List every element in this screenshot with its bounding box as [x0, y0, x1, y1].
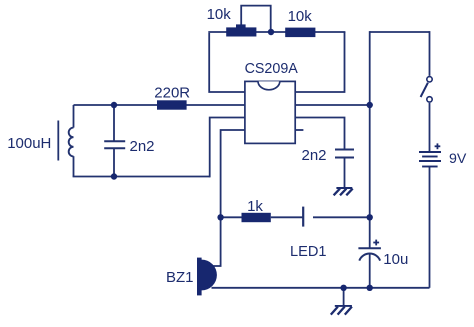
capacitor 2n2 (right) plates: [335, 150, 354, 158]
wire: 2n2 left bottom lead: [113, 148, 115, 176]
resistor 10k: [285, 28, 315, 37]
svg-text:10k: 10k: [207, 6, 232, 23]
inductor L1 coil: [69, 128, 74, 157]
inductor L1 core bar: [57, 121, 59, 161]
wire: V+ top link: [370, 31, 430, 33]
svg-text:CS209A: CS209A: [245, 61, 299, 77]
wire: pin 4 left elbow down to 1k row: [221, 130, 245, 217]
junction dot: rail ground: [340, 285, 346, 291]
svg-text:2n2: 2n2: [130, 138, 155, 155]
buzzer BZ1: [197, 258, 217, 296]
svg-text:BZ1: BZ1: [166, 269, 194, 286]
wire: switch bottom lead to battery: [429, 103, 431, 151]
wire: pin 2 right to V+ line: [295, 104, 370, 106]
junction dot: tank bottom: [111, 173, 117, 179]
ground G2 (bottom rail): [331, 306, 352, 315]
wire: battery negative lead: [429, 167, 431, 288]
capacitor 10u plates: [358, 248, 381, 260]
wire: 2n2 left top lead: [113, 105, 115, 141]
wire: top wire: [208, 31, 345, 33]
ground G1 (under right 2n2): [334, 188, 353, 195]
battery B1 9V: [419, 152, 441, 167]
switch S1: [421, 77, 433, 103]
svg-text:1k: 1k: [247, 198, 263, 215]
svg-text:100uH: 100uH: [7, 135, 51, 152]
wire: V+ vertical lower (below 10u): [369, 254, 371, 288]
junction dot: LED row on V+ line: [367, 214, 373, 220]
LED1 bar: [302, 207, 304, 227]
wire: tank bottom row: [74, 175, 210, 178]
wire: box right vertical + IC pin 1 right: [295, 32, 344, 92]
wire: wiper loop: [241, 6, 271, 32]
wire: ground stub bottom: [343, 288, 345, 305]
wire: box left vertical + IC pin 1 left: [209, 33, 245, 92]
svg-text:220R: 220R: [154, 84, 190, 101]
svg-text:LED1: LED1: [290, 244, 327, 260]
svg-text:2n2: 2n2: [302, 147, 327, 164]
svg-text:10k: 10k: [288, 8, 313, 25]
wire: pin 3 right elbow down to 2n2: [295, 118, 344, 150]
IC U1 CS209A body: [245, 81, 295, 143]
wire: inductor top lead: [73, 105, 75, 128]
junction dot: 1k row left: [217, 214, 223, 220]
svg-text:9V: 9V: [449, 151, 467, 167]
wire: bottom rail: [212, 287, 430, 289]
battery plus sign: [435, 143, 441, 149]
resistor 1k: [242, 213, 271, 222]
capacitor 2n2 (tank) plates: [104, 141, 125, 148]
wire: 1k to LED bar: [271, 216, 303, 218]
wire: buzzer top lead: [212, 216, 221, 266]
10u plus sign: [373, 240, 379, 246]
wire: pin 4 right stub (NC): [295, 129, 303, 131]
wire: inductor bottom lead: [73, 156, 75, 176]
wire: LED row right segment: [313, 216, 370, 218]
wire: tank top row (pin 2 left): [74, 104, 245, 106]
svg-text:10u: 10u: [383, 251, 408, 268]
wire: switch top lead: [429, 31, 431, 76]
wire: 2n2 right bottom lead to ground: [344, 158, 346, 188]
junction dot: wiper to top wire: [268, 29, 274, 35]
junction dot: tank top: [111, 102, 117, 108]
potentiometer VR1 10k body: [226, 24, 256, 36]
wire: V+ vertical upper: [369, 31, 371, 248]
resistor 220R: [157, 100, 187, 109]
junction dot: rail 10u: [367, 285, 373, 291]
junction dot: pin2R on V+ line: [367, 102, 373, 108]
wire: pin 3 left elbow: [210, 118, 245, 178]
wire: 1k row left: [221, 216, 242, 218]
